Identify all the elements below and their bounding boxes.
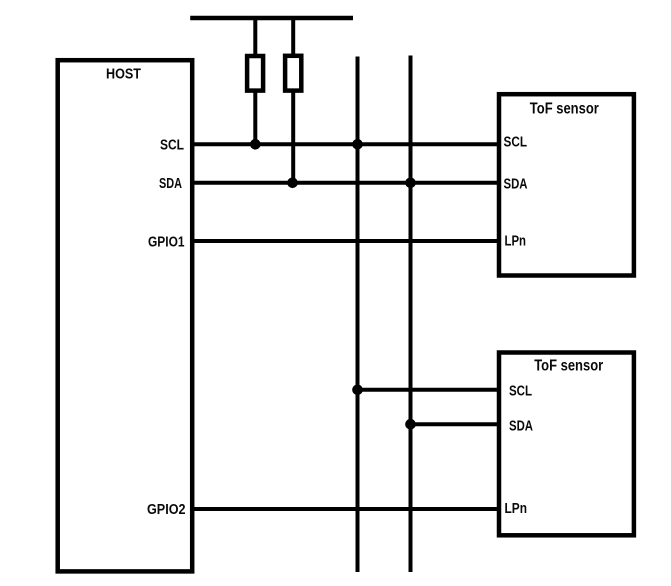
- svg-text:LPn: LPn: [505, 501, 528, 517]
- ToF sensor 2 block: [499, 353, 634, 536]
- wire GPIO1 to LPn of ToF sensor 1: [193, 239, 500, 243]
- svg-text:GPIO1: GPIO1: [148, 235, 185, 251]
- svg-text:GPIO2: GPIO2: [147, 502, 186, 518]
- junction SCL bus / sensor 2: [352, 385, 363, 396]
- resistor R1 (SCL pull-up): [247, 18, 263, 144]
- HOST block U1: [58, 60, 193, 571]
- wire GPIO2 to LPn of ToF sensor 2: [193, 507, 500, 511]
- svg-text:SDA: SDA: [159, 176, 182, 192]
- wire SCL net (HOST to ToF sensor 1): [193, 142, 500, 146]
- resistor R2 (SDA pull-up): [285, 18, 301, 183]
- svg-text:ToF sensor: ToF sensor: [530, 101, 599, 118]
- svg-text:SDA: SDA: [509, 418, 533, 434]
- wire SDA bus to ToF sensor 2: [411, 422, 500, 426]
- svg-text:HOST: HOST: [106, 66, 141, 82]
- svg-text:SCL: SCL: [160, 138, 184, 154]
- wire SDA net (HOST to ToF sensor 1): [193, 181, 500, 185]
- svg-text:SCL: SCL: [509, 384, 532, 400]
- junction R2/SDA: [287, 178, 298, 189]
- junction SCL/bus: [352, 139, 363, 150]
- junction R1/SCL: [250, 139, 261, 150]
- SCL bus vertical wire: [356, 57, 360, 573]
- junction SDA/bus: [405, 178, 416, 189]
- svg-text:ToF sensor: ToF sensor: [534, 358, 603, 375]
- power rail: [190, 16, 353, 21]
- wire SCL bus to ToF sensor 2: [358, 388, 500, 392]
- svg-text:SCL: SCL: [504, 135, 528, 151]
- svg-text:LPn: LPn: [505, 234, 527, 250]
- SDA bus vertical wire: [409, 56, 413, 573]
- ToF sensor 1 block: [499, 94, 634, 275]
- svg-text:SDA: SDA: [504, 176, 528, 192]
- junction SDA bus / sensor 2: [405, 419, 416, 430]
